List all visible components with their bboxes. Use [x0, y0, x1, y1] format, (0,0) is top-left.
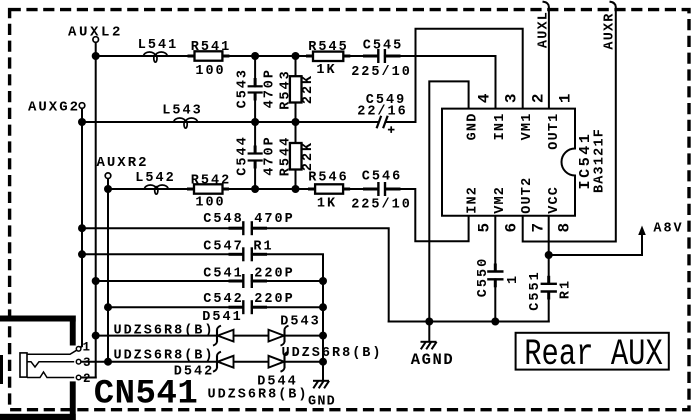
wire AUXG2 vertical: [79, 108, 82, 348]
wire AUXL2 row right of C545 to IN1: [385, 56, 496, 109]
svg-text:IN2: IN2: [465, 186, 480, 214]
svg-text:A8V: A8V: [653, 222, 683, 237]
capacitor C544: [248, 146, 263, 169]
capacitor C548: [229, 221, 268, 235]
junction AUXG2 row / R543-R544: [292, 118, 300, 126]
svg-text:22K: 22K: [301, 74, 316, 104]
svg-text:5: 5: [476, 223, 494, 233]
svg-text:225/10: 225/10: [351, 198, 412, 213]
wire C547 row: [82, 253, 243, 255]
wire D541 row: [96, 335, 323, 337]
svg-text:3: 3: [503, 93, 521, 103]
resistor R543: [279, 69, 316, 109]
junction D541 row / AUXL2 line: [92, 332, 100, 340]
wire AUXL line to pin1: [544, 2, 549, 109]
svg-text:1: 1: [82, 340, 90, 354]
ground GND: [313, 381, 329, 389]
svg-text:UDZS6R8(B): UDZS6R8(B): [113, 349, 214, 364]
wire GND pin4 route: [429, 81, 468, 321]
connector contact 3: [27, 362, 74, 367]
wire D542 row: [81, 361, 323, 363]
svg-text:R1: R1: [253, 239, 273, 254]
svg-text:CN541: CN541: [94, 376, 199, 414]
svg-text:C544: C544: [236, 135, 251, 175]
svg-text:C542: C542: [203, 292, 243, 307]
wire R543 leads: [295, 56, 297, 76]
junction C541 row / right bus: [319, 277, 327, 285]
wire AUXR2 row: [108, 188, 378, 190]
svg-text:4: 4: [476, 93, 494, 103]
svg-text:C541: C541: [203, 266, 243, 281]
svg-text:R545: R545: [308, 40, 348, 55]
junction AUXL2 row / R543: [292, 52, 300, 60]
capacitor C541: [229, 274, 268, 288]
junction AUXR2 row / AUXR2 line: [104, 185, 112, 193]
svg-text:AUXL2: AUXL2: [68, 25, 123, 41]
zener diode D541: [213, 326, 234, 346]
svg-text:GND: GND: [465, 113, 480, 141]
svg-text:220P: 220P: [254, 266, 294, 281]
svg-text:AUXL: AUXL: [536, 11, 551, 48]
svg-text:UDZS6R8(B): UDZS6R8(B): [207, 387, 308, 402]
svg-text:L543: L543: [162, 104, 202, 119]
wire pin2 connector to AUXL2: [81, 377, 96, 379]
inductor L542: [145, 185, 169, 194]
svg-text:470P: 470P: [254, 212, 294, 227]
connector pin 3: [76, 356, 90, 370]
resistor R544: [279, 136, 316, 176]
svg-text:1: 1: [506, 274, 521, 284]
svg-text:7: 7: [530, 223, 548, 233]
svg-text:VCC: VCC: [547, 186, 562, 214]
inductor L543: [174, 118, 198, 128]
svg-text:225/10: 225/10: [351, 65, 412, 80]
svg-text:C548: C548: [203, 212, 243, 227]
svg-text:22/16: 22/16: [357, 105, 408, 120]
resistor R546: [308, 171, 350, 212]
svg-text:1K: 1K: [317, 197, 337, 212]
capacitor C545: [363, 49, 401, 63]
wire VM2 to C550: [494, 216, 496, 272]
capacitor C543: [248, 78, 263, 101]
svg-text:R542: R542: [191, 173, 231, 188]
wire AGND stub: [428, 322, 430, 342]
wire AGND bottom bus: [389, 321, 549, 323]
junction D541 row / right bus: [319, 332, 327, 340]
svg-text:R544: R544: [279, 136, 294, 176]
wire C541 row: [96, 280, 244, 282]
svg-text:VM2: VM2: [493, 186, 508, 214]
junction AGND bus / C550: [491, 318, 499, 326]
svg-text:AUXR2: AUXR2: [96, 155, 148, 171]
svg-text:6: 6: [503, 223, 521, 233]
svg-text:8: 8: [556, 223, 574, 233]
wire AUXR2 vertical: [107, 178, 109, 362]
zener diode D544: [269, 352, 289, 372]
node A8V arrow: [638, 222, 683, 237]
svg-text:VM1: VM1: [520, 113, 535, 141]
svg-text:100: 100: [195, 196, 225, 211]
svg-text:AGND: AGND: [411, 351, 455, 369]
resistor R541: [188, 40, 232, 79]
resistor R545: [306, 40, 350, 78]
svg-text:R546: R546: [308, 171, 348, 186]
svg-text:C550: C550: [476, 257, 491, 297]
wire AUXL2 vertical: [95, 42, 97, 378]
terminal AUXL2: [68, 25, 123, 43]
wire VCC down: [548, 216, 550, 284]
svg-text:OUT2: OUT2: [520, 177, 535, 214]
svg-text:470P: 470P: [262, 68, 277, 108]
svg-text:UDZS6R8(B): UDZS6R8(B): [281, 346, 382, 361]
inductor L541: [144, 52, 168, 62]
svg-text:100: 100: [195, 64, 225, 79]
wire R544 leads: [295, 122, 297, 143]
svg-text:AUXR: AUXR: [603, 12, 618, 49]
wire A8V feed: [549, 230, 642, 255]
svg-text:C551: C551: [528, 270, 543, 310]
junction D542 row / right bus: [319, 358, 327, 366]
connector pin 1: [76, 340, 90, 354]
junction C542 row / AUXR2 line: [104, 303, 112, 311]
junction D542 row / AUXR2 line: [104, 358, 112, 366]
svg-text:OUT1: OUT1: [547, 113, 562, 150]
junction C547 row / AUXG2 line: [78, 250, 86, 258]
svg-text:22K: 22K: [301, 141, 316, 171]
zener diode D542: [213, 352, 234, 372]
capacitor C547: [229, 247, 268, 261]
svg-text:UDZS6R8(B): UDZS6R8(B): [113, 323, 214, 338]
wire C550 bottom lead: [494, 279, 496, 321]
svg-text:1: 1: [556, 93, 574, 103]
wire C546 to IN2: [385, 189, 469, 241]
wire AUXL2 row left: [96, 55, 379, 57]
svg-text:Rear AUX: Rear AUX: [524, 333, 663, 375]
svg-text:1K: 1K: [316, 63, 336, 78]
wire AUXR line to OUT2: [523, 2, 616, 242]
junction C548 row / AUXG2 line: [78, 224, 86, 232]
junction AUXG2 row / C543-C544: [251, 118, 259, 126]
svg-text:L541: L541: [138, 38, 178, 53]
svg-text:R543: R543: [279, 69, 294, 109]
wire C543 leads: [254, 56, 256, 86]
IC U541: isolation amplifier IC541 BA3121F body: [442, 109, 575, 216]
capacitor C546: [363, 182, 401, 196]
capacitor C549: [377, 116, 395, 133]
svg-text:L542: L542: [135, 171, 175, 186]
wire C542 row: [108, 306, 243, 308]
svg-text:C547: C547: [203, 239, 243, 254]
svg-text:R541: R541: [191, 40, 231, 55]
capacitor C551: [541, 276, 557, 300]
svg-text:IN1: IN1: [493, 113, 508, 141]
wire middle row: [82, 121, 379, 123]
connector contact 2: [27, 372, 74, 378]
capacitor C550: [487, 264, 503, 288]
zener diode D543: [269, 326, 289, 346]
svg-text:C543: C543: [236, 68, 251, 108]
svg-text:AUXG2: AUXG2: [28, 100, 80, 116]
connector contact 1: [27, 350, 77, 354]
wire C548 row: [82, 227, 243, 229]
wire C551 bottom lead: [548, 292, 550, 322]
svg-text:R1: R1: [559, 279, 574, 299]
label Rear AUX box: [516, 333, 669, 375]
connector jack tip: [20, 353, 27, 377]
junction AUXL2 row / AUXL2 line: [92, 52, 100, 60]
svg-text:GND: GND: [308, 395, 336, 410]
svg-text:470P: 470P: [262, 135, 277, 175]
svg-text:220P: 220P: [254, 292, 294, 307]
junction AUXG2 row / AUXG2 line: [78, 118, 86, 126]
svg-text:3: 3: [83, 356, 91, 370]
connector CN541 shell: [0, 316, 76, 420]
junction VCC / C551 / A8V: [545, 251, 553, 259]
terminal AUXG2: [28, 100, 85, 116]
svg-text:2: 2: [530, 93, 548, 103]
junction C541 row / AUXL2 line: [92, 277, 100, 285]
svg-text:C546: C546: [362, 170, 402, 185]
junction C542 row / right bus: [319, 303, 327, 311]
junction AUXR2 row / C544: [251, 185, 259, 193]
capacitor C542: [229, 300, 268, 314]
svg-text:IC541: IC541: [577, 131, 594, 189]
svg-text:BA3121F: BA3121F: [593, 128, 608, 193]
junction AGND bus / pin4 route: [425, 318, 433, 326]
connector pin 2: [76, 372, 90, 386]
junction AUXR2 row / R544: [292, 185, 300, 193]
wire C549 to VM1: [387, 29, 523, 122]
terminal AUXR2: [96, 155, 148, 179]
ground AGND: [421, 342, 437, 350]
svg-text:2: 2: [83, 372, 91, 386]
svg-text:C545: C545: [363, 39, 403, 54]
junction AUXL2 row / C543: [251, 52, 259, 60]
svg-text:D543: D543: [280, 314, 320, 329]
resistor R542: [187, 173, 231, 210]
wire C544 leads: [254, 122, 256, 154]
